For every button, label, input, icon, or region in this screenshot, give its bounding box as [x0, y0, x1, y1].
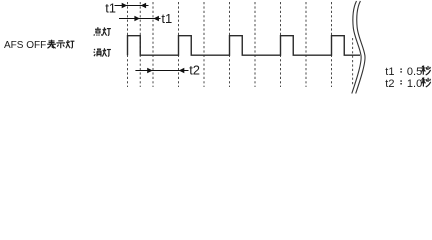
svg-text:1.0: 1.0: [407, 78, 422, 90]
svg-text:t2: t2: [189, 63, 200, 78]
svg-text:t1: t1: [161, 11, 172, 26]
svg-text:t1: t1: [385, 66, 394, 78]
svg-text:t1: t1: [105, 0, 116, 15]
svg-text:AFS OFF: AFS OFF: [4, 40, 46, 51]
svg-text:0.5: 0.5: [407, 66, 422, 78]
svg-text:t2: t2: [385, 78, 394, 90]
